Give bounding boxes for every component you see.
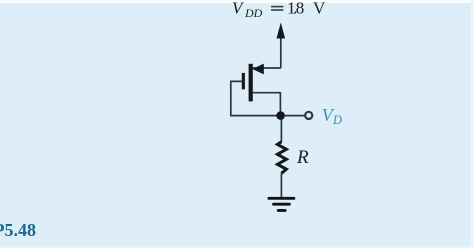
power VDD arrow	[277, 23, 286, 69]
resistor R	[277, 142, 286, 174]
label P5.48	[0, 220, 36, 240]
node drain junction	[276, 111, 285, 120]
svg-text:P5.48: P5.48	[0, 220, 36, 240]
svg-text:8: 8	[296, 0, 305, 18]
wire source lead	[253, 67, 281, 69]
label VD	[322, 105, 342, 127]
wire resistor to ground	[280, 173, 282, 197]
svg-text:DD: DD	[244, 6, 263, 20]
svg-text:D: D	[332, 113, 342, 127]
wire node to VD terminal	[284, 115, 304, 117]
ground	[268, 197, 296, 212]
label VDD = 1.8 V	[232, 0, 326, 20]
wire node to resistor	[280, 119, 282, 142]
svg-text:V: V	[232, 0, 245, 18]
svg-text:R: R	[296, 147, 309, 168]
wire drain lead	[253, 93, 281, 113]
wire gate feedback	[231, 81, 278, 115]
label R	[296, 147, 309, 168]
transistor M1 (PMOS, diode-connected)	[242, 64, 264, 102]
svg-text:V: V	[313, 0, 326, 18]
terminal VD	[305, 112, 312, 119]
